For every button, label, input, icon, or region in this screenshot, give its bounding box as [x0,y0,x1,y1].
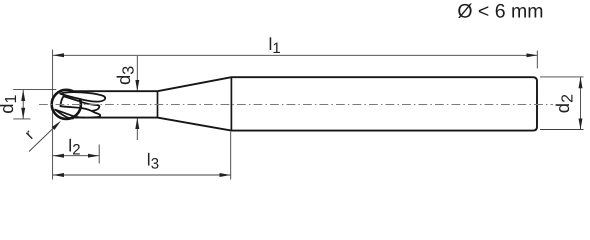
extension line d1 bottom [13,118,30,120]
extension line tool tip (left, shared by l1 l2 l3) [52,50,54,180]
leader arrow r [52,121,61,130]
dimension line d1 [22,90,24,119]
extension line d1 top [13,89,56,91]
label d1 (rotated) [0,95,20,114]
dimension line l1 [53,54,537,56]
lower flute sliver lower edge [55,110,73,119]
lower flute sliver upper edge [55,110,84,118]
tool body outline (neck, taper, shank with chamfered end) [72,77,537,130]
svg-text:l2: l2 [68,135,80,158]
svg-text:l3: l3 [147,149,159,172]
centerline (axis, dash-dot) [39,104,553,106]
label d2 (rotated) [552,94,576,113]
leader line r [29,126,56,152]
dimension d3 lower pointer line [136,118,138,140]
extension line d2 bottom [540,129,584,131]
upper flute almond [60,92,105,101]
label r (rotated) [22,127,38,143]
svg-text:d1: d1 [0,95,20,114]
label d3 (rotated) [113,66,137,85]
svg-text:d2: d2 [552,94,576,113]
flute face left edge [61,96,64,106]
taper-shank junction line [230,77,232,130]
flute gash lower edge with lower hook [61,106,101,117]
svg-text:l1: l1 [269,34,281,57]
extension line l2 right [98,145,100,164]
extension line d2 top [540,76,584,78]
svg-text:d3: d3 [113,66,137,85]
svg-text:r: r [22,127,38,143]
extension line l1 right [536,51,538,69]
dimension line l3 [53,174,230,176]
extension line l3 right [230,132,232,180]
dimension line d2 [580,77,582,129]
neck-taper junction line [157,91,159,117]
ball nose outline [52,90,81,119]
dimension d3 upper pointer line [136,56,138,91]
flute gash upper edge with hook [64,96,100,111]
dimension line l2 [53,155,99,157]
svg-text:Ø < 6 mm: Ø < 6 mm [457,0,543,22]
